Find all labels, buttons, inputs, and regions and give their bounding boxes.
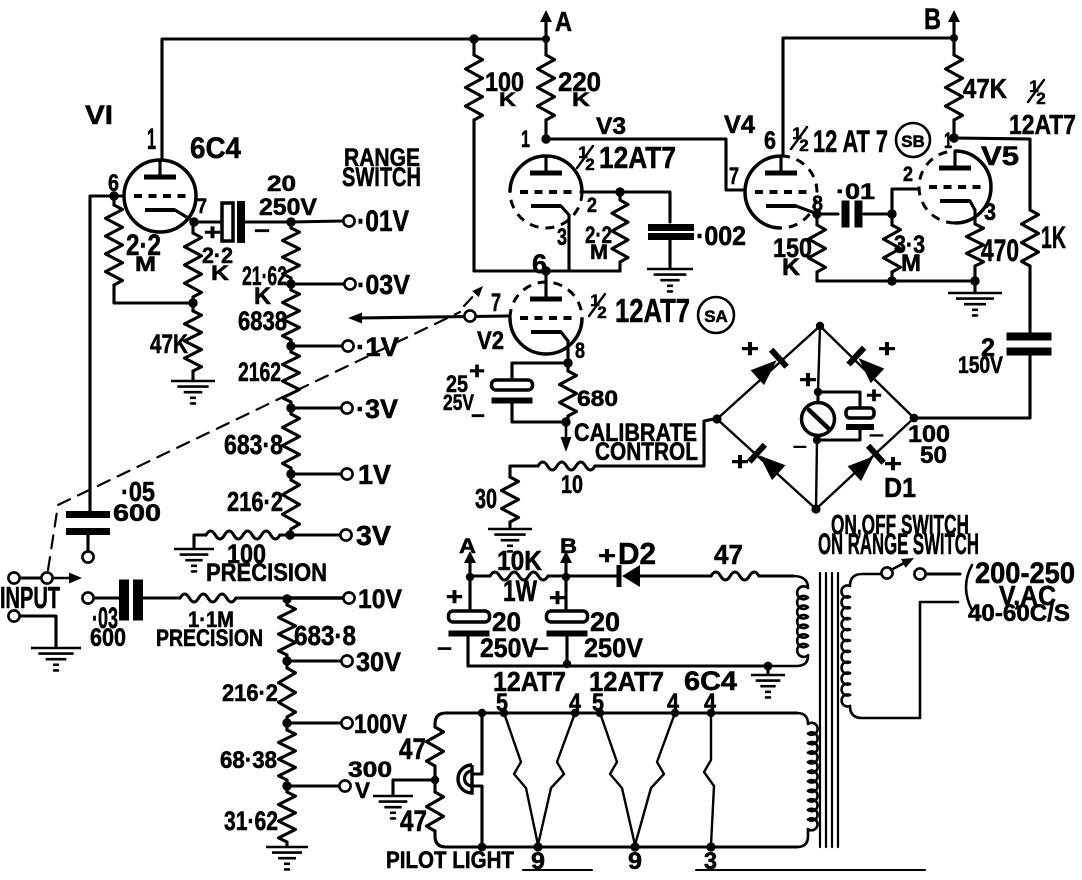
ground at divider bottom <box>266 846 308 849</box>
junction 10V tap <box>282 594 291 603</box>
junction 3.3M bottom <box>887 276 896 285</box>
wire filter ground rail <box>468 664 768 667</box>
wire V5 plate node to 1K <box>954 138 1030 210</box>
wire tap to .3V terminal <box>291 406 341 409</box>
junction 1V tap <box>286 469 295 478</box>
svg-text:2: 2 <box>903 163 913 186</box>
ground below 30 <box>488 528 532 531</box>
junction pilot bottom <box>478 843 487 852</box>
wire pot left to 30 resistor <box>510 466 538 477</box>
electrolytic coupling capacitor 20 250V <box>194 220 222 223</box>
node B arrow and label <box>952 20 955 38</box>
svg-text:47: 47 <box>399 734 426 766</box>
svg-text:K: K <box>572 89 590 111</box>
svg-text:1: 1 <box>944 128 952 153</box>
svg-text:47: 47 <box>714 539 743 570</box>
svg-text:12 AT 7: 12 AT 7 <box>813 123 888 159</box>
on-off switch contact left <box>881 567 892 578</box>
junction heater pin9 first <box>533 842 542 851</box>
svg-text:V3: V3 <box>596 114 626 140</box>
wire V2 plate lead <box>544 271 547 283</box>
wire tap to .01V terminal <box>291 221 343 222</box>
wire tap to 1V terminal <box>291 472 341 475</box>
svg-text:6: 6 <box>764 127 776 155</box>
terminal 30V <box>341 655 352 666</box>
capacitor .002 to ground <box>620 192 670 222</box>
half fraction and 12AT7 label V2 <box>589 291 690 330</box>
ground at HT centre <box>766 666 769 674</box>
resistor 2.2M V3 grid <box>581 190 618 193</box>
wire lower input terminal to ground <box>20 616 56 646</box>
node A arrow power supply <box>468 561 471 577</box>
wire pot to bridge left corner <box>595 419 714 466</box>
wire V3 plate to V4 grid <box>546 139 745 190</box>
junction .01 to V5 grid <box>887 209 896 218</box>
diode bottom-left of bridge <box>759 455 785 480</box>
svg-text:+: + <box>598 542 616 570</box>
svg-text:30: 30 <box>475 483 497 514</box>
half fraction and 12AT7 label V5 <box>1009 77 1076 140</box>
electrolytic 25 25V <box>512 363 568 380</box>
transformer HT secondary winding <box>770 576 808 666</box>
svg-text:+: + <box>549 584 566 612</box>
wire HT rail B to V4 plate <box>783 38 952 156</box>
wire V3 cathode to 100K node rail <box>567 215 570 271</box>
svg-text:K: K <box>782 255 800 281</box>
junction V5 plate node <box>949 133 958 142</box>
wire V1 plate to HT rail A <box>162 39 544 160</box>
terminal .03V <box>344 278 355 289</box>
triode V4 half 12AT7 <box>724 111 823 228</box>
junction node at 100K top <box>469 34 478 43</box>
svg-text:+: + <box>731 448 749 476</box>
heater bottom rail <box>446 845 797 848</box>
wire input terminals <box>20 576 41 579</box>
svg-text:6838: 6838 <box>238 306 287 336</box>
terminal 100V <box>341 717 352 728</box>
resistor 216.2 upper <box>289 474 292 480</box>
junction .3V tap <box>286 403 295 412</box>
wire tap to 100V terminal <box>287 721 341 724</box>
svg-text:68·38: 68·38 <box>220 748 277 774</box>
svg-text:K: K <box>499 89 516 111</box>
svg-text:−: − <box>869 426 884 445</box>
svg-text:250V: 250V <box>584 633 643 663</box>
terminal .1V <box>342 340 353 351</box>
svg-text:25V: 25V <box>443 390 474 415</box>
svg-text:V: V <box>355 778 370 803</box>
svg-text:250V: 250V <box>480 633 538 663</box>
capacitor .01 coupling <box>817 212 838 215</box>
svg-text:+: + <box>866 383 882 408</box>
svg-text:470: 470 <box>981 232 1019 268</box>
resistor 2.2M V1 grid leak <box>112 196 115 205</box>
on-off switch blade arrow <box>891 562 906 570</box>
junction V4 cathode <box>812 209 821 218</box>
diode D2 <box>566 574 617 577</box>
wire V2 grid with arrow to range switch <box>357 316 509 318</box>
bridge rectifier D1 diamond <box>717 326 914 509</box>
wire V1 grid to input cap branch <box>90 196 124 511</box>
ground below 470 <box>973 281 976 292</box>
triode V5 half 12AT7 <box>903 128 1019 226</box>
wire 47 midpoint to ground <box>393 780 435 795</box>
svg-text:PRECISION: PRECISION <box>206 559 327 587</box>
calibrate wiper arrow <box>565 426 568 438</box>
svg-text:680: 680 <box>577 386 618 411</box>
svg-text:7: 7 <box>491 289 501 317</box>
wire cathode rail V4 V5 <box>817 279 975 282</box>
input wiper arrow <box>54 577 72 579</box>
triode V3 half 12AT7 <box>510 114 626 251</box>
svg-text:3: 3 <box>704 849 717 875</box>
heater wire 12AT7 pin5 first <box>504 713 538 845</box>
junction 47 divider midpoint <box>431 776 439 784</box>
resistor 47K anode V5 <box>952 38 955 55</box>
mains bracket <box>966 565 972 610</box>
junction bridge right corner <box>910 414 919 423</box>
svg-text:683·8: 683·8 <box>294 620 356 651</box>
heater wire 12AT7 pin4 first <box>538 713 575 845</box>
svg-text:SA: SA <box>704 307 728 326</box>
junction 680 bottom <box>561 417 570 426</box>
pilot lamp branch wire lower <box>480 786 483 847</box>
svg-text:V2: V2 <box>477 327 504 355</box>
svg-text:10: 10 <box>561 471 583 499</box>
resistor 47K to ground <box>191 303 194 311</box>
wire 2uF cap to bridge right corner <box>918 352 1030 418</box>
svg-text:INPUT: INPUT <box>0 581 60 615</box>
resistor 30 <box>502 477 519 522</box>
half fraction and 12AT7 label V3 <box>577 141 676 175</box>
svg-text:2162: 2162 <box>238 357 281 387</box>
wire tap to 3V terminal <box>290 533 340 536</box>
ground at input <box>31 647 81 650</box>
svg-text:9: 9 <box>531 849 545 875</box>
triode V2 half 12AT7 <box>477 282 585 363</box>
triode V1 6C4 <box>85 100 242 232</box>
terminal 300V <box>339 780 350 791</box>
switch SA circle <box>698 297 734 333</box>
switch contact on V2 grid wire <box>464 310 475 321</box>
svg-text:1W: 1W <box>503 576 537 608</box>
svg-text:12AT7: 12AT7 <box>599 141 676 175</box>
svg-text:−: − <box>471 403 485 428</box>
svg-text:A: A <box>459 535 476 558</box>
resistor 150K <box>815 214 818 225</box>
electrolytic 100 50 inside bridge <box>817 383 884 445</box>
junction .1V tap <box>286 341 295 350</box>
junction V1 cathode pin7 <box>189 217 198 226</box>
svg-text:216·2: 216·2 <box>222 681 278 707</box>
svg-text:·01V: ·01V <box>357 206 409 238</box>
junction 3V tap <box>285 530 294 539</box>
svg-text:1: 1 <box>521 127 530 153</box>
svg-text:·1V: ·1V <box>356 332 399 362</box>
svg-text:·002: ·002 <box>696 221 746 251</box>
resistor 47 HT <box>711 572 759 580</box>
ground below 100 precision <box>174 548 214 551</box>
svg-text:M: M <box>590 241 608 264</box>
svg-text:150V: 150V <box>958 353 1003 379</box>
diode bottom-right of bridge <box>848 456 874 481</box>
junction V2 plate node <box>541 266 550 275</box>
svg-text:47: 47 <box>400 806 427 838</box>
junction bridge left corner <box>712 414 721 423</box>
transformer heater winding <box>797 713 818 847</box>
svg-text:1: 1 <box>147 124 156 156</box>
svg-text:−: − <box>254 218 270 243</box>
artifact line bottom right <box>696 869 925 871</box>
pilot lamp <box>458 765 482 793</box>
svg-text:+: + <box>741 335 759 363</box>
dashed range-switch gang line <box>48 312 460 570</box>
terminal .3V <box>341 402 352 413</box>
svg-text:2: 2 <box>587 194 597 217</box>
switch SB circle <box>896 123 930 157</box>
wire V2 cathode down <box>566 341 569 363</box>
wire tap to .1V terminal <box>291 344 342 347</box>
junction 30V tap <box>282 656 291 665</box>
resistor 21.62K <box>289 222 292 228</box>
svg-text:+: + <box>204 220 221 245</box>
wire tap to 300V terminal <box>287 784 339 787</box>
wire tap to 10V terminal <box>287 596 343 599</box>
resistor 220K <box>544 39 547 55</box>
junction heater pin9 second <box>630 842 639 851</box>
svg-text:K: K <box>211 262 229 285</box>
electrolytic filter cap 20 250V second <box>564 577 567 611</box>
svg-text:M: M <box>135 253 156 276</box>
ground below 47K <box>171 380 215 383</box>
resistor 6838 <box>289 284 292 290</box>
wire rail 100K to 2.2M bottom <box>474 269 620 272</box>
svg-text:216·2: 216·2 <box>227 486 283 517</box>
junction V3 plate node <box>541 134 550 143</box>
heater wire 6C4 pin4 <box>704 713 714 845</box>
svg-text:47K: 47K <box>963 73 1007 104</box>
resistor 1K <box>1022 210 1039 266</box>
svg-text:3: 3 <box>984 200 996 226</box>
svg-text:CONTROL: CONTROL <box>595 438 698 466</box>
resistor 100K <box>472 39 475 55</box>
transformer primary winding <box>841 574 958 718</box>
svg-text:7: 7 <box>729 164 739 190</box>
svg-text:2: 2 <box>585 155 594 174</box>
svg-text:+: + <box>469 359 485 385</box>
svg-text:2: 2 <box>799 136 808 155</box>
dashed gang line arrow to wiper <box>464 291 478 306</box>
svg-text:+: + <box>799 366 817 394</box>
svg-text:SB: SB <box>901 132 925 151</box>
svg-text:6C4: 6C4 <box>190 133 242 165</box>
pilot lamp branch wire upper <box>480 713 483 774</box>
svg-text:20: 20 <box>267 171 296 196</box>
resistor 10K 1W <box>470 574 490 577</box>
svg-text:·03V: ·03V <box>357 269 410 300</box>
meter inside bridge <box>793 326 835 509</box>
on-off switch contact right <box>914 568 925 579</box>
terminal .01V <box>343 215 354 226</box>
potentiometer 10 calibrate control <box>538 462 595 470</box>
junction bridge top corner <box>816 322 824 330</box>
heater wire 12AT7 pin5 second <box>600 713 635 845</box>
svg-text:683·8: 683·8 <box>224 429 283 460</box>
svg-text:D1: D1 <box>884 472 916 503</box>
resistor 216.2 lower <box>285 661 288 668</box>
svg-text:9: 9 <box>628 849 642 875</box>
junction .01V tap <box>286 217 295 226</box>
wire switch to mains <box>926 572 960 575</box>
svg-text:3: 3 <box>557 225 567 251</box>
svg-text:V5: V5 <box>981 141 1019 171</box>
resistor 2.2K V1 cathode <box>191 222 194 233</box>
junction .03V tap <box>286 279 295 288</box>
junction filter cap ground rail <box>563 660 571 668</box>
electrolytic filter cap 20 250V first <box>468 577 471 611</box>
svg-text:31·62: 31·62 <box>224 806 278 836</box>
resistor 3.3M <box>890 214 893 225</box>
node A arrow and label <box>544 20 547 39</box>
ground below 47 divider <box>373 795 413 798</box>
svg-text:VI: VI <box>85 100 113 130</box>
junction B filter <box>562 573 570 581</box>
resistor 2162 <box>289 346 292 352</box>
resistor 470 <box>973 210 976 224</box>
svg-text:30V: 30V <box>356 647 401 677</box>
artifact line bottom centre <box>523 869 592 871</box>
svg-text:40-60C/S: 40-60C/S <box>968 601 1070 627</box>
svg-text:1V: 1V <box>358 459 391 490</box>
svg-text:8: 8 <box>575 338 585 363</box>
terminal 10V <box>343 592 354 603</box>
half fraction and 12 AT 7 label V4 <box>791 123 888 159</box>
resistor 100 PRECISION <box>280 533 290 536</box>
switch wiper contact <box>41 572 52 583</box>
resistor 31.62 <box>285 786 288 792</box>
junction 100V tap <box>282 718 291 727</box>
junction pilot top <box>478 709 486 717</box>
diode top-right of bridge <box>859 358 885 383</box>
terminal 3V <box>340 529 351 540</box>
svg-text:12AT7: 12AT7 <box>1009 109 1076 140</box>
svg-text:12AT7: 12AT7 <box>615 293 690 330</box>
svg-text:1K: 1K <box>1041 219 1066 255</box>
svg-text:PRECISION: PRECISION <box>156 626 263 652</box>
capacitor 2 150V <box>1007 333 1052 341</box>
heater top rail <box>446 711 797 714</box>
svg-text:2: 2 <box>1036 89 1045 108</box>
input terminal lower <box>8 610 19 621</box>
svg-text:·3V: ·3V <box>356 394 398 424</box>
svg-text:7: 7 <box>197 195 207 218</box>
svg-text:B: B <box>560 535 577 558</box>
junction heater pin3 <box>706 842 715 851</box>
capacitor .05 600 <box>66 511 110 518</box>
svg-text:SWITCH: SWITCH <box>342 162 421 192</box>
svg-text:V4: V4 <box>724 111 755 139</box>
switch contact below .05 cap <box>82 551 93 562</box>
wire tap to 30V terminal <box>287 659 341 662</box>
svg-text:3V: 3V <box>356 520 391 551</box>
resistor 683.8 lower <box>285 599 288 605</box>
svg-text:−: − <box>437 638 452 660</box>
junction HT winding to ground rail <box>764 662 773 671</box>
svg-text:−: − <box>534 638 549 660</box>
svg-text:B: B <box>924 4 941 36</box>
heater box outline with 47 47 resistors <box>435 713 446 727</box>
svg-text:600: 600 <box>113 501 161 527</box>
diode top-left of bridge <box>751 360 777 385</box>
junction 2.2K bottom <box>188 298 197 307</box>
svg-text:A: A <box>555 6 572 37</box>
terminal 1V <box>341 468 352 479</box>
resistor 68.38 <box>285 723 288 730</box>
resistor 680 <box>566 363 569 371</box>
svg-text:+: + <box>446 583 463 611</box>
svg-text:M: M <box>901 251 921 277</box>
junction A filter <box>466 573 474 581</box>
svg-text:10V: 10V <box>358 584 402 614</box>
heater wire 12AT7 pin4 second <box>635 713 675 845</box>
junction V2 cathode <box>563 358 572 367</box>
resistor 1.1M PRECISION <box>180 594 236 602</box>
svg-text:+: + <box>878 335 896 363</box>
ground below .002 <box>647 268 693 271</box>
svg-text:600: 600 <box>90 624 126 652</box>
svg-text:2: 2 <box>597 303 606 322</box>
svg-text:PILOT LIGHT: PILOT LIGHT <box>386 848 515 874</box>
svg-text:·01: ·01 <box>836 179 875 204</box>
capacitor .03 600 <box>82 592 93 603</box>
svg-text:ON RANGE SWITCH: ON RANGE SWITCH <box>818 529 979 561</box>
svg-text:D2: D2 <box>618 537 656 571</box>
wire tap to .03V terminal <box>291 282 344 285</box>
junction 300V tap <box>282 781 291 790</box>
resistor 683.8 upper <box>289 408 292 414</box>
input terminal upper <box>8 572 19 583</box>
svg-text:250V: 250V <box>259 195 317 221</box>
transformer core laminations <box>819 573 821 847</box>
node B arrow power supply <box>564 561 567 577</box>
svg-text:−: − <box>793 439 807 456</box>
svg-text:50: 50 <box>920 443 947 469</box>
junction 470 bottom <box>970 276 979 285</box>
svg-text:47K: 47K <box>150 329 188 359</box>
junction bridge bottom corner <box>811 504 820 513</box>
junction V1 grid / 2.2M <box>109 191 118 200</box>
wire to V5 grid <box>892 189 919 214</box>
svg-text:10K: 10K <box>497 545 542 576</box>
